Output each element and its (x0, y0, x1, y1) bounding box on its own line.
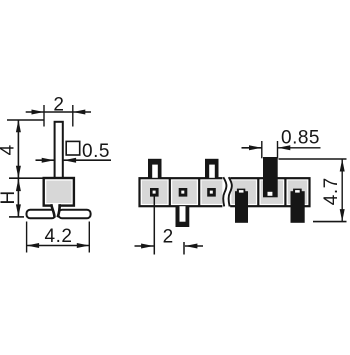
dimension 4 top tick (7, 119, 44, 121)
left solder leg (27, 210, 56, 218)
dimension 0.5 right arrow (64, 158, 77, 163)
svg-text:H: H (0, 190, 19, 204)
cell 4 gray core (231, 180, 256, 204)
break squiggle left line (223, 177, 226, 206)
dimension 4.2 extension line left (26, 222, 28, 253)
square symbol of 0.5 (66, 141, 80, 155)
dimension 4.7 top tick (279, 158, 347, 160)
dimension 4.7 line (341, 159, 343, 222)
dimension 4 up arrow (16, 120, 21, 133)
cell divider 1 (169, 178, 171, 206)
insulator body (side view) (44, 178, 74, 206)
solid pin below right (after break) (291, 191, 305, 223)
svg-text:4: 4 (0, 144, 18, 155)
svg-text:0.5: 0.5 (82, 141, 110, 162)
dimension H down arrow (16, 204, 21, 217)
right solder leg (58, 210, 90, 218)
dimension 2 (right fig) right arrow (185, 244, 198, 249)
dimension H bottom tick (9, 216, 24, 218)
cell 6 gray core (288, 180, 307, 204)
dimension 4.2 extension line right (88, 222, 90, 253)
break gap (222, 177, 230, 208)
dimension 4.2 left arrow (27, 243, 39, 248)
cell 1 gray core (142, 180, 168, 204)
dimension 2 left arrow (32, 110, 45, 115)
pin 2 below (outline style) (176, 206, 190, 227)
leader line from contact 1 (153, 197, 155, 255)
dimension 0.85 right tail (278, 147, 321, 149)
cell 3 gray core (202, 180, 223, 204)
dimension 4.7 down arrow (340, 209, 345, 222)
svg-text:4.7: 4.7 (321, 177, 342, 205)
svg-text:0.85: 0.85 (281, 128, 320, 149)
body top extension tick (9, 177, 43, 179)
dimension H up arrow (16, 179, 21, 192)
dimension H line (17, 178, 19, 217)
break squiggle right line (229, 177, 232, 206)
cell divider 2 (198, 178, 200, 206)
cell 5 gray core (261, 180, 283, 204)
dimension 2 line (26, 111, 91, 113)
header body strip (140, 178, 310, 206)
dimension 2 extension line right (72, 105, 74, 127)
contact square 2 (179, 188, 188, 197)
dimension 2 (right fig) extension line (183, 242, 185, 255)
cell 2 gray core (172, 180, 197, 204)
bend of lead white core (52, 204, 59, 217)
dimension 4.7 up arrow (340, 159, 345, 172)
dimension 0.85 left tail (242, 147, 262, 149)
dimension 0.85 right arrow (278, 145, 291, 150)
bend of lead left wall (51, 204, 54, 217)
dimension 2 (right fig) left tail (135, 245, 154, 247)
dimension 4.2 line (27, 245, 90, 247)
dimension 2 (right fig) right tail (185, 245, 203, 247)
dimension 0.5 left tail (36, 159, 55, 161)
pin 1 above (outline style) (148, 159, 162, 179)
dimension 0.85 extension line right (277, 141, 279, 158)
contact square 1 (150, 188, 159, 197)
dimension 2 (right fig) left arrow (141, 244, 154, 249)
solid pin below left (after break) (235, 191, 248, 223)
dimension 0.85 extension line left (261, 141, 263, 158)
dimension 4 down arrow (16, 166, 21, 179)
dimension 0.85 left arrow (249, 145, 262, 150)
insulator body gray core (46, 181, 71, 203)
svg-text:4.2: 4.2 (45, 226, 73, 247)
pin 3 above (outline style) (205, 159, 219, 179)
cell divider 3 (257, 178, 259, 206)
dimension 2 right arrow (73, 110, 86, 115)
bend of lead right wall (58, 204, 60, 217)
pin P1 vertical shank (55, 122, 63, 179)
dimension 2 extension line left (43, 105, 45, 127)
dimension 4.2 right arrow (77, 243, 90, 248)
cell divider 4 (284, 178, 286, 206)
dimension 0.5 left arrow (42, 158, 55, 163)
solid pin above (after break) (263, 157, 278, 197)
dimension 0.5 right tail (64, 159, 111, 161)
dimension 4 line (17, 120, 19, 179)
contact square 3 (207, 188, 216, 197)
dimension 4.7 bottom tick (313, 221, 347, 223)
svg-text:2: 2 (163, 226, 174, 247)
